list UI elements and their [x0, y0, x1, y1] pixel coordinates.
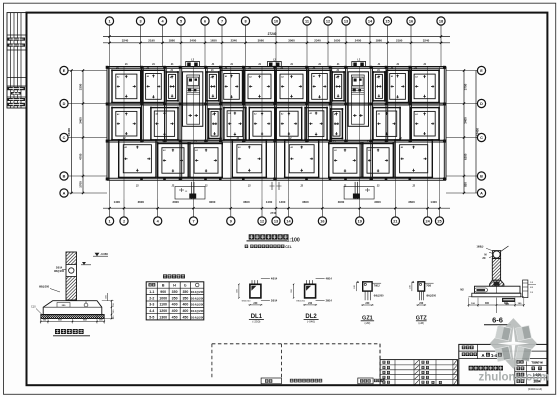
svg-text:21: 21 [393, 220, 397, 224]
svg-text:400: 400 [172, 303, 178, 307]
section 6-6 right bar detail [523, 280, 528, 298]
svg-text:Φ14@200: Φ14@200 [190, 309, 204, 313]
left dimension lines [71, 71, 73, 194]
svg-text:3300: 3300 [79, 83, 83, 90]
title block row1 text [462, 346, 466, 350]
foundation detail title [55, 329, 60, 334]
svg-text:1: 1 [109, 220, 111, 224]
svg-text:1-4: 1-4 [491, 353, 498, 358]
title block box [459, 344, 548, 385]
svg-text:(≤M): (≤M) [365, 321, 371, 325]
stair core left [183, 72, 203, 127]
svg-text:400: 400 [172, 309, 178, 313]
svg-text:350: 350 [172, 290, 178, 294]
top grid bubbles [105, 17, 113, 43]
entrance step detail right [344, 187, 374, 200]
svg-text:6: 6 [204, 20, 206, 24]
column section GTZ [409, 281, 436, 325]
svg-text:3400: 3400 [79, 117, 83, 124]
svg-text:25: 25 [437, 220, 441, 224]
svg-text:3000: 3000 [374, 200, 381, 204]
svg-text:D: D [480, 102, 483, 106]
svg-text:A: A [482, 353, 485, 358]
svg-text:2: 2 [123, 220, 125, 224]
svg-text:C: C [63, 136, 66, 140]
svg-text:7Φ12: 7Φ12 [374, 284, 381, 287]
svg-text:1200: 1200 [159, 309, 167, 313]
svg-text:300: 300 [485, 302, 490, 305]
svg-text:(0402mm4): (0402mm4) [528, 387, 542, 391]
top axis lines into plan [109, 43, 111, 67]
bottom dimension line [103, 207, 450, 209]
svg-text:2Φ14: 2Φ14 [271, 300, 278, 303]
svg-text:Φ14@200: Φ14@200 [190, 315, 204, 319]
svg-text:6200: 6200 [464, 153, 468, 160]
svg-text:10: 10 [274, 20, 278, 24]
svg-text:2190: 2190 [148, 38, 155, 42]
svg-text:3000: 3000 [209, 200, 216, 204]
svg-text:C: C [480, 136, 483, 140]
svg-text:Φ8@200: Φ8@200 [39, 286, 50, 289]
svg-text:1Φ8@: 1Φ8@ [477, 246, 485, 249]
svg-text:19: 19 [358, 220, 362, 224]
svg-text:12: 12 [326, 20, 330, 24]
svg-text:13400: 13400 [476, 128, 480, 136]
level mark second [81, 264, 91, 266]
svg-text:1860: 1860 [169, 38, 176, 42]
plan wall row D [107, 102, 446, 104]
svg-text:1Φ: 1Φ [530, 281, 533, 284]
svg-text:3240: 3240 [423, 38, 430, 42]
svg-text:-0.060: -0.060 [100, 252, 108, 256]
plan party walls vertical [106, 67, 108, 181]
svg-text:2004: 2004 [533, 380, 540, 384]
svg-text:(≤M): (≤M) [418, 321, 424, 325]
plan title text [249, 234, 254, 239]
svg-text:400: 400 [182, 309, 188, 313]
section 6-6 dims [469, 304, 524, 306]
svg-text:T03N7-M: T03N7-M [531, 361, 543, 365]
svg-text:240: 240 [419, 302, 424, 305]
svg-text:450: 450 [182, 315, 188, 319]
svg-text:B: B [162, 284, 165, 288]
svg-text:4-4: 4-4 [149, 309, 154, 313]
svg-text:5: 5 [180, 20, 182, 24]
watermark overlay restamp dark texts [469, 353, 544, 384]
svg-text:1400: 1400 [279, 200, 286, 204]
footing trapezoid [43, 301, 102, 315]
svg-text:3000: 3000 [172, 200, 179, 204]
svg-text:3240: 3240 [122, 38, 129, 42]
svg-text:M: M [484, 253, 486, 257]
beam section DL2 [291, 278, 332, 324]
binding strip table [7, 13, 27, 108]
svg-text:E: E [480, 69, 483, 73]
dashed revision box [212, 343, 380, 345]
svg-text:4700: 4700 [79, 153, 83, 160]
top dimension line upper [103, 36, 450, 38]
svg-text:Φ14@200: Φ14@200 [190, 303, 204, 307]
binding strip text [8, 38, 26, 41]
entrance step detail left [175, 187, 205, 200]
top dimension line lower [103, 42, 450, 44]
svg-text:2Φ: 2Φ [482, 257, 485, 260]
svg-text:4Φ14: 4Φ14 [271, 278, 278, 281]
svg-text:E: E [63, 69, 66, 73]
svg-text:1-1: 1-1 [149, 290, 154, 294]
svg-text::: : [248, 245, 249, 249]
svg-text:A: A [480, 192, 483, 196]
svg-text:1650: 1650 [210, 38, 217, 42]
detail right dims [111, 301, 113, 319]
svg-text:H: H [173, 284, 176, 288]
title block row2 label [462, 353, 466, 357]
small section details above top wall [186, 62, 200, 67]
row B footings [119, 140, 156, 177]
svg-text:2400: 2400 [355, 38, 362, 42]
stair core right [348, 72, 368, 127]
left grid bubbles [60, 66, 107, 74]
foundation detail beam window [66, 265, 78, 277]
svg-text:Φ8@200: Φ8@200 [296, 300, 306, 303]
svg-text:Φ8@200: Φ8@200 [241, 300, 251, 303]
svg-text:A: A [63, 192, 66, 196]
svg-text:Φ6@200: Φ6@200 [374, 295, 384, 298]
bottom axis lines through plan [109, 200, 111, 209]
svg-text:1000: 1000 [159, 296, 167, 300]
signature grid texts [383, 361, 386, 364]
svg-text:7: 7 [221, 20, 223, 24]
svg-text:11: 11 [305, 20, 309, 24]
svg-text:3060: 3060 [258, 38, 265, 42]
svg-text:1100: 1100 [159, 303, 167, 307]
svg-text:1700: 1700 [79, 181, 83, 188]
svg-text:3000: 3000 [338, 200, 345, 204]
svg-text:27240: 27240 [268, 32, 277, 36]
svg-text:13: 13 [274, 220, 278, 224]
svg-text:1:100: 1:100 [533, 373, 541, 377]
svg-text:2Φ: 2Φ [530, 291, 533, 294]
svg-text:850: 850 [464, 182, 468, 187]
plan note text [245, 245, 248, 248]
svg-text:16: 16 [409, 20, 413, 24]
row D footings [112, 108, 141, 140]
title block sub-table [514, 359, 516, 386]
svg-text:3400: 3400 [464, 117, 468, 124]
foundation size table [146, 282, 204, 320]
center bottom marks [271, 182, 273, 190]
beam section DL1 [236, 278, 277, 324]
svg-text:6-6: 6-6 [492, 316, 503, 325]
section 6-6 centerline [496, 298, 498, 313]
section 6-6 slab [475, 286, 521, 293]
svg-text:350: 350 [182, 296, 188, 300]
signature grid slashes [415, 360, 419, 364]
svg-text:7: 7 [192, 220, 194, 224]
svg-text:Φ8@200: Φ8@200 [54, 270, 65, 273]
svg-text:2190: 2190 [396, 38, 403, 42]
svg-text:8: 8 [244, 20, 246, 24]
signature grid [380, 360, 457, 386]
column section GZ1 [354, 281, 384, 325]
watermark white star cutout [498, 326, 530, 360]
svg-text:900: 900 [160, 290, 166, 294]
section 6-6 hatched wall [492, 258, 500, 280]
svg-text:350: 350 [172, 296, 178, 300]
svg-text:B: B [480, 175, 483, 179]
watermark logo petals [495, 325, 511, 340]
svg-text:1400: 1400 [266, 200, 273, 204]
title block project name [482, 353, 502, 358]
column blobs at wall intersections [106, 66, 109, 69]
plan bottom wall [107, 177, 446, 179]
right grid bubbles [446, 66, 486, 74]
svg-text:240: 240 [365, 302, 370, 305]
svg-text:15: 15 [385, 20, 389, 24]
section 6-6 base strip [472, 293, 521, 297]
title block drawing name [469, 366, 474, 371]
row E footings [112, 70, 141, 102]
foundation size table title [163, 274, 167, 278]
svg-text:12: 12 [260, 220, 264, 224]
svg-text:5-5: 5-5 [149, 315, 154, 319]
svg-text:13: 13 [344, 20, 348, 24]
svg-text:D: D [63, 102, 66, 106]
svg-text:2Φ14: 2Φ14 [326, 300, 333, 303]
svg-text:1400: 1400 [430, 200, 437, 204]
svg-text:3060: 3060 [288, 38, 295, 42]
right dimension lines [463, 71, 465, 194]
svg-text:2340: 2340 [231, 38, 238, 42]
svg-text:18: 18 [439, 20, 443, 24]
svg-text:C21.: C21. [285, 245, 292, 249]
svg-text:7Φ8: 7Φ8 [426, 284, 431, 287]
svg-text:1650: 1650 [334, 38, 341, 42]
svg-text:2400: 2400 [190, 38, 197, 42]
svg-text:240: 240 [308, 302, 313, 305]
svg-text:1300: 1300 [159, 315, 167, 319]
svg-text:240: 240 [253, 302, 258, 305]
plan top wall [107, 66, 446, 68]
svg-text:2-2: 2-2 [149, 296, 154, 300]
detail bottom dims [41, 321, 104, 323]
svg-text:400: 400 [182, 303, 188, 307]
svg-text:3600: 3600 [302, 200, 309, 204]
bottom grid bubbles [106, 208, 114, 225]
section 6-6 top circle [493, 251, 500, 258]
svg-text:(-040): (-040) [307, 320, 315, 324]
plan wall row C [107, 139, 446, 141]
svg-text:1860: 1860 [376, 38, 383, 42]
svg-text:C10: C10 [31, 306, 36, 309]
svg-text:B: B [63, 175, 66, 179]
svg-text:4Φ14: 4Φ14 [326, 278, 333, 281]
svg-text:Φ14@200: Φ14@200 [190, 290, 204, 294]
svg-text:Φ14@200: Φ14@200 [190, 296, 204, 300]
watermark zhulong logo diamond [490, 318, 538, 369]
bottom strip boxes [261, 378, 281, 384]
svg-text:450: 450 [172, 315, 178, 319]
svg-text:3600: 3600 [138, 200, 145, 204]
svg-text:9: 9 [230, 220, 232, 224]
svg-text:3: 3 [139, 20, 141, 24]
svg-text:16: 16 [320, 220, 324, 224]
svg-text:Φ6@200: Φ6@200 [426, 295, 436, 298]
svg-text:1: 1 [108, 20, 110, 24]
svg-text:1400: 1400 [114, 200, 121, 204]
svg-text:3700: 3700 [464, 83, 468, 90]
svg-text:(-250): (-250) [252, 320, 260, 324]
level mark -0.060 [93, 255, 108, 257]
svg-text:15400: 15400 [67, 128, 71, 136]
section 6-6 column flare [490, 280, 504, 286]
svg-text:350: 350 [182, 290, 188, 294]
svg-text:2340: 2340 [314, 38, 321, 42]
svg-text:3-3: 3-3 [149, 303, 154, 307]
foundation detail column hatched [66, 252, 77, 300]
svg-text:3600: 3600 [243, 200, 250, 204]
gravel bed [41, 314, 104, 318]
svg-text:1:100: 1:100 [287, 237, 300, 243]
svg-text:3600: 3600 [408, 200, 415, 204]
